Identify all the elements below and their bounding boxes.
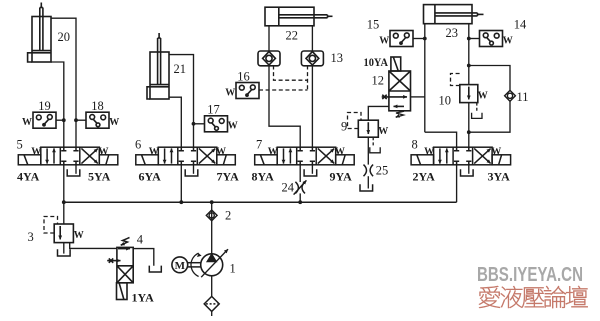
node on B line of valve 6 [192,122,196,126]
svg-text:16: 16 [237,69,250,83]
wire: throttle 25 to tank [367,176,369,188]
wire: valve 3 to tank [63,242,65,254]
svg-text:W: W [379,35,389,46]
wire: node to valve 8 port B [468,132,470,147]
pilot line (dashed) of valve 9 [348,113,362,129]
wire: cylinder-23 cap line to valve 8 port A [425,132,457,147]
svg-text:5YA: 5YA [88,169,111,183]
pressure valve 9 [358,120,378,137]
pressure switch 14 [480,31,503,47]
svg-text:15: 15 [367,17,380,31]
watermark chinese characters [479,286,588,308]
wire: node to valve 10 [468,66,470,85]
pressure switch 16 [236,83,259,99]
svg-text:M: M [175,260,186,272]
drain (dashed) of valve 9 [372,137,374,146]
wire: switch 17 to node [194,123,205,125]
svg-text:W: W [378,126,388,137]
pressure switch 17 [205,116,228,132]
node on B line [74,118,78,122]
wire: bus to valve 3 [63,202,65,224]
pilot line (dashed) of check valve 13 [307,66,309,91]
svg-text:14: 14 [514,17,527,31]
valve 4 (pilot relief with solenoid vent 1YA) [107,247,133,299]
svg-text:W: W [99,147,109,158]
wire: valve 10 down to node [468,103,470,133]
wire: cylinder 22 cap-end port down to check valve [268,26,270,51]
pilot operated check valve 13 [301,51,323,66]
svg-text:W: W [268,147,278,158]
svg-text:8: 8 [412,138,418,152]
wire: valve 3 to valve 4 [70,243,117,249]
wire: cylinder 20 rod-end port to valve 5 port B [51,18,76,147]
svg-text:5: 5 [17,138,23,152]
svg-text:W: W [491,147,501,158]
valve 12 (2/2 solenoid valve 10YA) [382,57,411,111]
pilot operated check valve (left of 13) [258,51,280,66]
svg-text:24: 24 [282,181,295,195]
shaft coupling [188,262,201,264]
svg-text:13: 13 [331,51,344,65]
svg-text:3: 3 [28,230,34,244]
svg-text:W: W [74,230,84,241]
drain (dashed) of valve 10 [476,103,478,111]
tank under valve 8 [461,169,474,176]
cylinder 21 (vertical) [147,33,169,99]
pressure switch 18 [86,112,109,128]
svg-text:4: 4 [137,233,144,247]
valve 8 (4/3 solenoid directional valve) [411,147,511,165]
valve 6 (4/3 solenoid directional valve) [136,147,236,165]
svg-text:10: 10 [439,94,452,108]
suction filter [204,296,219,311]
svg-text:1YA: 1YA [132,291,155,305]
pressure switch 15 [390,31,413,47]
tank under valve 6 [185,169,198,176]
node on A line [62,118,66,122]
wire: switch 19 to node [56,119,64,121]
pressure switch 19 [33,112,56,128]
wire: cylinder 21 rod-end port to valve 6 port B [169,55,194,148]
svg-text:23: 23 [446,26,459,40]
throttle valve 24 (adjustable) [295,182,305,194]
svg-text:W: W [22,117,32,128]
svg-text:3YA: 3YA [488,169,511,183]
wire: valve 8 P port to bus [456,165,458,202]
svg-text:W: W [478,91,488,102]
wire: valve 6 P port to pressure bus [180,165,182,202]
wire: check valve 11 down to node [469,101,510,132]
tank under throttle 25 [360,184,373,191]
tank under valve 7 [304,169,317,176]
pressure valve 10 [460,85,478,103]
svg-text:W: W [225,87,235,98]
svg-text:W: W [503,35,513,46]
wire: throttle 24 to pressure bus [299,193,301,202]
spring of valve 12 [396,111,404,117]
svg-text:6YA: 6YA [139,169,162,183]
wire: node to check valve 11 branch [469,66,510,91]
wire: cylinder 23 cap-end port down (to valve 12 / valve 8 A) [424,24,426,133]
svg-text:W: W [149,147,159,158]
wire: check valve 13 to valve 7 port B [311,66,313,148]
wire: valve 5 T port to tank [75,165,77,174]
wire: check valve 2 to bus [211,202,213,210]
svg-text:7: 7 [256,138,262,152]
wire: pump inlet down [211,276,213,297]
svg-text:8YA: 8YA [252,169,275,183]
wire: valve 6 T port to tank [193,165,195,174]
svg-text:W: W [109,117,119,128]
tank beside valve 4 [149,266,161,272]
svg-text:20: 20 [58,30,71,44]
svg-text:BBS.IYEYA.CN: BBS.IYEYA.CN [477,264,583,286]
wire: switch 14 to node [469,38,480,40]
cylinder 23 (horizontal) [424,5,484,24]
electric motor M [172,257,188,273]
svg-text:1: 1 [230,262,236,276]
wire: cylinder 21 cap-end port to valve 6 port A [169,97,181,147]
wire: valve 7 T port to tank [311,165,313,174]
tank under valve 3 [58,249,71,256]
svg-text:17: 17 [207,103,220,117]
svg-text:6: 6 [135,138,141,152]
wire: switch 18 to node [76,119,86,121]
spring of valve 4 [121,238,130,246]
valve 7 (4/3 solenoid directional valve) [255,147,355,165]
pilot line (dashed) of valve 3 [44,217,58,234]
variable displacement pump 1 [191,249,228,277]
pressure valve 3 [54,224,73,243]
svg-text:9: 9 [341,120,347,134]
svg-text:W: W [424,147,434,158]
svg-text:18: 18 [91,99,104,113]
svg-text:11: 11 [517,90,529,104]
check valve 11 [505,90,516,101]
wire: switch 15 to node [413,38,425,40]
wire: valve 12 to cylinder-23 cap line [411,96,425,98]
svg-text:4YA: 4YA [17,169,40,183]
tank under valve 5 [67,169,80,176]
svg-text:10YA: 10YA [364,55,389,69]
svg-text:2: 2 [225,209,231,223]
wire: valve 8 T port to tank [468,165,470,174]
svg-text:12: 12 [372,74,385,88]
junction nodes on bus [62,200,66,204]
svg-text:W: W [216,147,226,158]
svg-text:2YA: 2YA [413,169,436,183]
pilot line (dashed) of valve 10 [451,74,463,86]
wire: valve 9 down [367,137,369,164]
svg-text:7YA: 7YA [217,169,240,183]
svg-text:19: 19 [38,99,51,113]
sensing line (dashed) from switch 16 [259,89,308,91]
wire: cylinder 23 rod-end port down [468,24,470,66]
svg-text:W: W [31,147,41,158]
wire: left check valve to valve 7 port A [269,66,300,148]
wire: valve 7 P port down [299,165,301,182]
pressure bus line [64,201,457,203]
svg-text:9YA: 9YA [330,169,353,183]
pilot line (dashed) between check valves [274,66,308,81]
wire: pump outlet up [211,211,213,254]
svg-text:W: W [335,147,345,158]
cylinder 22 (horizontal) [265,7,333,26]
wire: valve 12 lower port to valve 9 [368,106,389,120]
wire: filter to tank [211,311,213,316]
svg-text:21: 21 [174,62,187,76]
wire: cylinder 20 cap-end port to valve 5 port A [51,62,64,147]
svg-text:25: 25 [376,164,389,178]
node: rod line of cylinder 23 [467,64,471,68]
svg-text:W: W [228,121,238,132]
cylinder 20 (vertical) [28,3,51,63]
wire: valve 5 P port to pressure bus [63,165,65,202]
valve 5 (4/3 solenoid directional valve) [18,147,118,165]
check valve 2 [206,210,217,221]
wire: cylinder 22 rod-end port down to check valve 13 [311,26,313,51]
svg-text:22: 22 [286,29,299,43]
throttle valve 25 [364,165,374,177]
wire: valve 4 to tank [133,249,154,266]
